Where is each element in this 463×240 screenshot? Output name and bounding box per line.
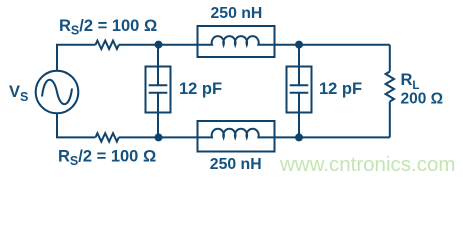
voltage source VS circle: [36, 71, 79, 114]
capacitor C2 box: [287, 67, 312, 113]
svg-text:RS/2 = 100 Ω: RS/2 = 100 Ω: [58, 148, 156, 169]
wire capacitor C1 bottom lead: [157, 113, 159, 138]
wire right rail top: [389, 45, 391, 72]
inductor L1 box: [198, 26, 275, 57]
wire capacitor C2 bottom lead: [298, 113, 300, 138]
wire top rail from inductor to load: [275, 44, 390, 46]
wire bottom rail from inductor to load: [275, 136, 390, 138]
resistor RS/2 bottom zigzag: [96, 133, 119, 141]
wire top rail between resistor and inductor box: [119, 44, 198, 46]
inductor L1 coil: [199, 36, 274, 45]
svg-text:200 Ω: 200 Ω: [401, 90, 444, 107]
wire capacitor C2 top lead: [298, 45, 300, 67]
svg-text:12 pF: 12 pF: [179, 80, 222, 98]
inductor L2 box: [198, 121, 275, 152]
voltage source VS sine wave: [42, 80, 72, 104]
inductor L2 coil: [199, 129, 274, 138]
svg-text:RS/2 = 100 Ω: RS/2 = 100 Ω: [59, 17, 157, 38]
capacitor C1 plates: [149, 67, 168, 113]
node C junction dot bottom left: [155, 133, 163, 141]
svg-text:250 nH: 250 nH: [210, 156, 262, 173]
wire right rail bottom: [389, 102, 391, 138]
svg-text:250 nH: 250 nH: [211, 5, 263, 22]
svg-text:RL: RL: [401, 71, 420, 92]
capacitor C2 plates: [290, 67, 309, 113]
capacitor C1 box: [146, 67, 171, 113]
node A junction dot top left: [155, 41, 163, 49]
wire left rail top (source to top rail corner): [57, 45, 96, 71]
wire left rail bottom (source to bottom rail corner): [57, 113, 96, 137]
node B junction dot top right: [295, 41, 303, 49]
wire capacitor C1 top lead: [157, 45, 159, 67]
resistor RS/2 top zigzag: [96, 41, 119, 49]
svg-text:www.cntronics.com: www.cntronics.com: [279, 153, 455, 176]
watermark www.cntronics.com: [279, 153, 455, 176]
wire bottom rail between resistor and inductor box: [119, 136, 198, 138]
svg-text:VS: VS: [9, 83, 28, 104]
node D junction dot bottom right: [295, 133, 303, 141]
svg-text:12 pF: 12 pF: [319, 80, 362, 98]
resistor RL zigzag: [386, 72, 394, 102]
